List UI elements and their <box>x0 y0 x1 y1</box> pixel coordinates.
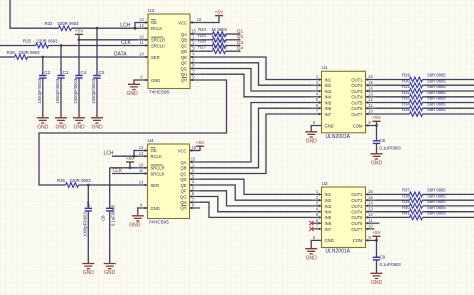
svg-text:13: 13 <box>368 206 373 211</box>
svg-text:11: 11 <box>368 218 373 223</box>
wire R26 to net Q3 <box>226 45 241 47</box>
U1 right pin stubs <box>366 78 376 126</box>
svg-text:QC: QC <box>180 171 186 176</box>
svg-text:LCH: LCH <box>120 23 130 29</box>
svg-text:IN4: IN4 <box>325 210 332 215</box>
wire U3 to R24 <box>201 39 213 41</box>
svg-text:QH: QH <box>181 78 187 83</box>
svg-text:+5V: +5V <box>196 140 205 146</box>
svg-text:56R 0805: 56R 0805 <box>427 84 446 89</box>
svg-text:56R 0805: 56R 0805 <box>427 193 446 198</box>
svg-text:12: 12 <box>139 23 144 28</box>
U3 left pin numbers <box>139 17 144 80</box>
svg-text:QF: QF <box>181 61 187 66</box>
svg-text:56R 0805: 56R 0805 <box>427 107 446 112</box>
wire CLK from left edge <box>0 45 36 47</box>
svg-text:C3: C3 <box>63 70 69 75</box>
svg-text:QA: QA <box>181 32 187 37</box>
svg-text:IN4: IN4 <box>325 95 332 100</box>
wire U4 output to U1 IN6 <box>200 108 311 168</box>
svg-text:Q4: Q4 <box>237 46 244 52</box>
power +5V for U3 SRCLR <box>75 28 84 40</box>
resistor R25 <box>23 38 58 48</box>
IC U1 ULN2001A body <box>322 65 366 140</box>
resistor R30 <box>402 78 446 87</box>
svg-text:R40: R40 <box>402 205 410 210</box>
svg-text:LCH: LCH <box>103 151 113 157</box>
svg-text:15: 15 <box>368 80 373 85</box>
svg-text:OUT4: OUT4 <box>351 210 363 215</box>
svg-text:C7: C7 <box>86 201 91 207</box>
wire U1 OUT6 to R34 <box>376 107 410 109</box>
svg-text:14: 14 <box>368 201 373 206</box>
U2 pin names left <box>325 192 334 243</box>
svg-text:GND: GND <box>325 238 334 243</box>
svg-text:DATA: DATA <box>114 51 127 57</box>
svg-text:12: 12 <box>368 97 373 102</box>
svg-text:QE: QE <box>181 55 187 60</box>
wire DATA from left edge <box>0 56 15 58</box>
svg-text:QD: QD <box>181 49 187 54</box>
svg-text:56R 0805: 56R 0805 <box>427 199 446 204</box>
svg-text:R23: R23 <box>198 27 206 32</box>
svg-text:GND: GND <box>371 280 383 286</box>
wire U2 OUT1 to R37 <box>376 193 410 195</box>
svg-text:OE: OE <box>151 20 157 25</box>
wire U4 output to U2 IN2 <box>200 185 311 200</box>
ground U4 pin 8 <box>129 216 144 229</box>
svg-text:C4: C4 <box>81 70 87 75</box>
svg-text:SER: SER <box>151 55 160 60</box>
net label Q4 <box>237 46 244 52</box>
net label Q3 <box>237 40 244 46</box>
svg-text:1K 0603: 1K 0603 <box>211 39 227 44</box>
svg-text:QH: QH <box>180 200 186 205</box>
wire U4 output to U2 IN4 <box>200 197 311 212</box>
wire U4 SRCLR <box>110 166 137 169</box>
wire U4 output to U1 IN7 <box>200 114 311 174</box>
wire U2 OUT4 to R40 <box>376 211 410 213</box>
svg-text:10: 10 <box>139 34 144 39</box>
resistor R23 <box>198 27 227 36</box>
svg-text:R25: R25 <box>23 38 31 43</box>
svg-text:IN3: IN3 <box>325 89 332 94</box>
svg-text:IN7: IN7 <box>325 227 332 232</box>
svg-text:56R 0805: 56R 0805 <box>427 101 446 106</box>
svg-text:C5: C5 <box>99 70 105 75</box>
wire U3 output row 3 to U1 IN3 <box>201 69 312 92</box>
svg-text:R28: R28 <box>7 50 15 55</box>
wire U1 OUT1 to R29 <box>376 79 410 81</box>
wire R23 to net Q1 <box>226 33 241 35</box>
wire R36 to U4 SER <box>79 184 138 186</box>
wire U3 QH' cascade <box>39 80 227 185</box>
net label DATA <box>114 51 127 57</box>
svg-text:SRCLK: SRCLK <box>151 43 165 48</box>
wire LCH to U3 RCLK <box>72 27 138 29</box>
wire U3 to R27 <box>201 50 213 52</box>
IC U4 74HC595 body <box>148 138 190 226</box>
U1 GND pin 8 wire <box>311 126 321 132</box>
svg-text:CLK: CLK <box>121 40 131 46</box>
svg-text:Q1: Q1 <box>237 28 244 34</box>
svg-text:QH: QH <box>181 72 187 77</box>
svg-text:OUT2: OUT2 <box>351 198 363 203</box>
ground below C5 <box>91 118 103 131</box>
svg-text:RCLK: RCLK <box>151 26 162 31</box>
wire R29 to edge <box>423 79 474 81</box>
U3 right pin stubs <box>190 21 201 81</box>
svg-text:CLK: CLK <box>113 168 123 174</box>
capacitor C9 <box>373 254 402 273</box>
wire U2 OUT3 to R39 <box>376 205 410 207</box>
U2 left pin numbers <box>313 189 319 240</box>
node DATA-C2 branch <box>41 56 44 76</box>
svg-text:IN6: IN6 <box>325 106 332 111</box>
svg-text:15: 15 <box>191 29 196 34</box>
capacitor C3 <box>55 70 69 118</box>
ground below C7 <box>82 264 94 277</box>
svg-text:COM: COM <box>353 238 363 243</box>
svg-text:+5V: +5V <box>372 230 381 236</box>
svg-text:R27: R27 <box>198 44 206 49</box>
svg-text:GND: GND <box>91 124 103 130</box>
svg-text:1000pF/0603: 1000pF/0603 <box>37 78 42 103</box>
svg-text:QF: QF <box>181 189 187 194</box>
svg-text:56R 0805: 56R 0805 <box>427 188 446 193</box>
svg-text:IN2: IN2 <box>325 198 332 203</box>
svg-text:11: 11 <box>139 168 144 173</box>
svg-text:0.1uF/0603: 0.1uF/0603 <box>380 145 402 150</box>
svg-text:VCC: VCC <box>178 148 187 153</box>
U2 right pin stubs <box>366 193 380 241</box>
svg-text:U3: U3 <box>148 8 154 14</box>
wire U3 to R23 <box>201 33 213 35</box>
ground below C4 <box>73 118 85 131</box>
svg-text:SER: SER <box>151 183 160 188</box>
svg-text:56R 0805: 56R 0805 <box>427 73 446 78</box>
wire U4 QH' dangling stub <box>199 207 201 209</box>
U1 right pin numbers <box>368 74 373 125</box>
capacitor C5 <box>91 70 105 118</box>
svg-text:1000pF/0603: 1000pF/0603 <box>55 78 60 103</box>
wire LCH stub U4 <box>112 155 137 157</box>
svg-text:56R 0805: 56R 0805 <box>427 96 446 101</box>
svg-text:14: 14 <box>368 86 373 91</box>
svg-text:R35: R35 <box>402 107 410 112</box>
wire U4 VCC to +5V <box>190 146 201 150</box>
svg-text:QG: QG <box>180 66 187 71</box>
resistor R35 <box>402 107 446 116</box>
svg-text:220R 0603: 220R 0603 <box>69 178 91 183</box>
net label Q2 <box>237 34 244 40</box>
resistor R32 <box>402 90 446 99</box>
svg-text:IN7: IN7 <box>325 112 332 117</box>
svg-text:10: 10 <box>368 109 373 114</box>
svg-text:GND: GND <box>104 270 116 276</box>
svg-text:U4: U4 <box>148 138 154 144</box>
svg-text:IN3: IN3 <box>325 204 332 209</box>
IC U3 74HC595 body <box>148 8 190 96</box>
capacitor C2 <box>37 70 51 118</box>
resistor R31 <box>402 84 446 93</box>
svg-text:RCLK: RCLK <box>151 154 162 159</box>
svg-text:13: 13 <box>368 91 373 96</box>
node C7 branch <box>87 184 90 209</box>
resistor R28 <box>7 50 40 60</box>
U4 pin names left <box>151 148 165 211</box>
ground below C2 <box>37 118 49 131</box>
wire R33 to edge <box>423 102 474 104</box>
U1 pin names right <box>351 77 363 128</box>
wire R27 to net Q4 <box>226 50 241 52</box>
node LCH-OE branch <box>134 23 138 30</box>
svg-text:SRCLR: SRCLR <box>151 37 165 42</box>
wire R38 to edge <box>423 199 474 201</box>
U4 right pin stubs <box>190 149 201 209</box>
wire U4 output to U2 IN1 <box>200 179 311 194</box>
ground U3 pin 8 <box>126 84 140 97</box>
svg-text:10: 10 <box>368 224 373 229</box>
svg-text:OUT3: OUT3 <box>351 89 363 94</box>
wire U1 OUT5 to R33 <box>376 102 410 104</box>
svg-text:GND: GND <box>151 78 160 83</box>
power +5V for U2 COM <box>372 230 381 236</box>
svg-text:15: 15 <box>368 195 373 200</box>
U2 right pin numbers <box>368 189 373 240</box>
svg-text:Q2: Q2 <box>237 34 244 40</box>
svg-text:OUT7: OUT7 <box>351 227 363 232</box>
svg-text:GND: GND <box>73 124 85 130</box>
capacitor C4 <box>73 70 87 118</box>
resistor R39 <box>402 199 446 208</box>
svg-text:C8: C8 <box>101 215 106 221</box>
svg-text:R30: R30 <box>402 78 410 83</box>
wire R34 to edge <box>423 107 474 109</box>
node LCH-C5 branch <box>96 27 99 76</box>
svg-text:R26: R26 <box>198 39 206 44</box>
svg-text:11: 11 <box>368 103 373 108</box>
svg-text:IN5: IN5 <box>325 215 332 220</box>
wire CLK stub U4 <box>112 173 137 175</box>
wire U3 to R26 <box>201 45 213 47</box>
svg-text:OUT4: OUT4 <box>351 95 363 100</box>
svg-text:R32: R32 <box>402 90 410 95</box>
U1 left pin stubs <box>311 78 322 115</box>
svg-text:GND: GND <box>306 138 318 144</box>
wire U4 output to U1 IN5 <box>200 103 311 163</box>
capacitor C6 <box>373 138 402 154</box>
wire U1 COM to +5V <box>375 121 378 127</box>
svg-text:IN1: IN1 <box>325 77 332 82</box>
svg-text:C9: C9 <box>380 254 386 259</box>
svg-text:R38: R38 <box>402 193 410 198</box>
svg-text:16: 16 <box>368 189 373 194</box>
wire U3 output row 2 to U1 IN2 <box>201 63 312 85</box>
resistor R22 <box>45 21 80 31</box>
svg-text:ULN2001A: ULN2001A <box>326 249 351 255</box>
svg-text:56R 0805: 56R 0805 <box>427 90 446 95</box>
svg-text:OE: OE <box>151 148 157 153</box>
svg-text:R39: R39 <box>402 199 410 204</box>
svg-text:0.1uF/0805: 0.1uF/0805 <box>111 204 116 226</box>
svg-text:1000pF/0603: 1000pF/0603 <box>82 212 87 237</box>
resistor R40 <box>402 205 446 214</box>
svg-text:C6: C6 <box>380 138 386 143</box>
resistor R33 <box>402 96 446 105</box>
svg-text:OUT6: OUT6 <box>351 221 363 226</box>
svg-text:GND: GND <box>371 160 383 166</box>
svg-text:Q3: Q3 <box>237 40 244 46</box>
U2 pin names right <box>351 192 363 243</box>
wire U1 OUT4 to R32 <box>376 96 410 98</box>
svg-text:16: 16 <box>368 74 373 79</box>
svg-text:QA: QA <box>180 160 186 165</box>
U3 pin names right <box>178 20 187 82</box>
wire R32 to edge <box>423 96 474 98</box>
net label LCH bottom <box>103 151 113 157</box>
wire R37 to edge <box>423 193 474 195</box>
U4 pin names right <box>178 148 187 210</box>
ground below C6 <box>371 154 383 167</box>
svg-text:15: 15 <box>191 157 196 162</box>
svg-text:12: 12 <box>368 212 373 217</box>
resistor R26 <box>198 39 227 48</box>
svg-text:OUT7: OUT7 <box>351 112 363 117</box>
svg-text:IN2: IN2 <box>325 83 332 88</box>
svg-text:R36: R36 <box>57 178 65 183</box>
wire U4 output to U2 IN3 <box>200 191 311 206</box>
svg-text:R41: R41 <box>402 211 410 216</box>
svg-text:74HC595: 74HC595 <box>149 89 170 95</box>
wire R39 to edge <box>423 205 474 207</box>
U4 GND pin 8 wire <box>136 208 139 216</box>
svg-text:R29: R29 <box>402 73 410 78</box>
wire U1 OUT3 to R31 <box>376 90 410 92</box>
wire U2 OUT5 to R41 <box>376 216 410 218</box>
power +5V for U3 VCC <box>215 10 224 16</box>
svg-text:QH: QH <box>180 206 186 211</box>
svg-text:OUT3: OUT3 <box>351 204 363 209</box>
svg-text:COM: COM <box>353 123 363 128</box>
U3 right pin numbers <box>191 17 202 80</box>
svg-text:13: 13 <box>139 17 144 22</box>
svg-text:+5V: +5V <box>75 28 84 34</box>
svg-text:14: 14 <box>139 52 144 57</box>
svg-text:1K 0603: 1K 0603 <box>211 27 227 32</box>
svg-text:OUT2: OUT2 <box>351 83 363 88</box>
resistor R37 <box>402 188 446 197</box>
node U4 OE branch <box>133 151 137 158</box>
svg-text:QB: QB <box>180 166 186 171</box>
svg-text:QD: QD <box>180 177 186 182</box>
wire C8 riser <box>109 168 111 209</box>
svg-text:12: 12 <box>139 151 144 156</box>
capacitor C7 <box>82 201 92 263</box>
resistor R34 <box>402 101 446 110</box>
wire U2 COM to +5V <box>375 236 378 242</box>
node CLK-C3 branch <box>60 44 63 75</box>
net label LCH <box>120 23 130 29</box>
svg-text:C2: C2 <box>44 70 50 75</box>
ground U2 pin 8 <box>305 249 317 262</box>
U1 pin names left <box>325 77 334 128</box>
power +5V for U4 SRCLR <box>126 156 135 168</box>
wire U3 output row 4 to U1 IN4 <box>201 74 312 97</box>
svg-text:+5V: +5V <box>215 10 224 16</box>
power +5V for U1 COM <box>372 115 381 121</box>
svg-text:1K 0603: 1K 0603 <box>211 33 227 38</box>
U4 left pin stubs <box>137 149 148 209</box>
resistor R38 <box>402 193 446 202</box>
U3 GND pin 8 wire <box>134 80 138 84</box>
wire DATA to U3 SER <box>28 56 138 58</box>
svg-text:OUT5: OUT5 <box>351 215 363 220</box>
svg-text:GND: GND <box>151 206 160 211</box>
svg-text:+5V: +5V <box>372 115 381 121</box>
U1 left pin numbers <box>313 74 319 125</box>
wire U1 OUT2 to R30 <box>376 84 410 86</box>
svg-text:OUT1: OUT1 <box>351 77 363 82</box>
wire +5V down to C4 <box>78 40 80 76</box>
svg-text:56R 0805: 56R 0805 <box>427 78 446 83</box>
wire U2 OUT2 to R38 <box>376 199 410 201</box>
wire U4 output to U2 IN5 <box>200 202 311 217</box>
no-connect X on U2 IN7 <box>309 227 313 231</box>
wire R30 to edge <box>423 84 474 86</box>
svg-text:GND: GND <box>129 222 141 228</box>
wire R40 to edge <box>423 211 474 213</box>
svg-text:VCC: VCC <box>178 20 187 25</box>
svg-text:R37: R37 <box>402 188 410 193</box>
IC U2 ULN2001A body <box>322 181 366 255</box>
resistor R29 <box>402 73 446 82</box>
resistor R24 <box>198 33 227 42</box>
svg-text:R31: R31 <box>402 84 410 89</box>
U2 left pin stubs <box>311 193 322 230</box>
wire U1 OUT7 to R35 <box>376 113 410 115</box>
svg-text:R24: R24 <box>198 33 206 38</box>
svg-text:IN6: IN6 <box>325 221 332 226</box>
no-connect X on U2 IN6 <box>309 221 313 225</box>
wire R35 to edge <box>423 113 474 115</box>
U2 GND pin 8 wire <box>311 240 321 248</box>
svg-text:74HC595: 74HC595 <box>149 219 170 225</box>
U3 left pin stubs <box>138 21 149 81</box>
svg-text:1000pF/0603: 1000pF/0603 <box>91 78 96 103</box>
svg-text:56R 0805: 56R 0805 <box>427 205 446 210</box>
U3 pin names left <box>151 20 165 83</box>
svg-text:SRCLR: SRCLR <box>151 165 165 170</box>
svg-text:14: 14 <box>139 180 144 185</box>
svg-text:13: 13 <box>139 145 144 150</box>
svg-text:11: 11 <box>139 40 144 45</box>
svg-text:QE: QE <box>180 183 186 188</box>
svg-text:R33: R33 <box>402 96 410 101</box>
net label Q1 <box>237 28 244 34</box>
wire R31 to edge <box>423 90 474 92</box>
svg-text:220R 0603: 220R 0603 <box>57 21 79 26</box>
wire +5V to C9 <box>376 240 378 257</box>
svg-text:U1: U1 <box>322 65 328 71</box>
resistor R41 <box>402 211 446 220</box>
wire R24 to net Q2 <box>226 39 241 41</box>
svg-text:GND: GND <box>37 124 49 130</box>
svg-text:GND: GND <box>126 91 138 97</box>
svg-text:56R 0805: 56R 0805 <box>427 211 446 216</box>
svg-text:1000pF/0603: 1000pF/0603 <box>73 78 78 103</box>
wire +5V to U3 SRCLR <box>78 38 138 41</box>
